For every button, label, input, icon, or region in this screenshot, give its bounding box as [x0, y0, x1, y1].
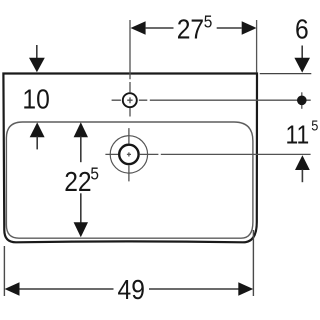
- dim 10 down arrow tail: [36, 45, 38, 59]
- faucet vertical centerline: [129, 20, 131, 117]
- svg-text:22: 22: [64, 165, 91, 197]
- dim 10 up arrow tail: [36, 137, 38, 150]
- svg-text:10: 10: [22, 83, 49, 115]
- dim 27.5 left arrow: [131, 21, 146, 35]
- dim 49 right extension line: [252, 230, 254, 296]
- dim 22.5 down arrow: [74, 222, 88, 237]
- dim 27.5 right arrow: [242, 21, 257, 35]
- dim 49 left extension line: [3, 246, 5, 296]
- svg-text:11: 11: [286, 121, 310, 150]
- dim 49 line: [19, 288, 239, 290]
- dim 22.5 up arrow: [74, 122, 88, 137]
- dim 22.5 line lower: [80, 193, 82, 223]
- dim 27.5 right extension line: [256, 20, 258, 73]
- label 11 sup 5: [286, 118, 319, 150]
- bowl inner outline: [6, 122, 253, 238]
- svg-text:5: 5: [204, 13, 213, 32]
- svg-text:27: 27: [177, 13, 204, 45]
- dim 10 up arrow: [30, 122, 45, 137]
- label 27 sup 5: [177, 13, 213, 45]
- svg-text:49: 49: [117, 274, 144, 306]
- dim 11.5 dot: [297, 96, 307, 106]
- drain vertical centerline: [128, 128, 130, 181]
- label 22 sup 5: [64, 165, 99, 198]
- dim 49 right arrow: [238, 282, 253, 296]
- dim 11.5 dot vertical tick: [301, 92, 303, 109]
- drain thick circle: [119, 145, 138, 164]
- basin outer outline: [3, 74, 257, 243]
- faucet hole circle: [123, 93, 137, 107]
- top edge extension line: [260, 73, 312, 75]
- dim 11.5 up arrow: [295, 155, 310, 170]
- faucet horizontal centerline: [112, 99, 311, 101]
- dim 49 left arrow: [5, 282, 20, 296]
- dim 6 down arrow: [294, 58, 310, 73]
- svg-text:5: 5: [90, 165, 99, 184]
- dim 11.5 arrow tail: [301, 170, 303, 183]
- svg-text:5: 5: [311, 118, 318, 134]
- drain outer thin circle: [110, 136, 147, 173]
- dim 22.5 line upper: [80, 137, 82, 163]
- dim 27.5 line: [146, 27, 242, 29]
- svg-text:6: 6: [295, 13, 309, 45]
- drain horizontal centerline: [105, 153, 310, 155]
- dim 10 down arrow: [29, 58, 45, 73]
- dim 6 arrow line: [301, 46, 303, 60]
